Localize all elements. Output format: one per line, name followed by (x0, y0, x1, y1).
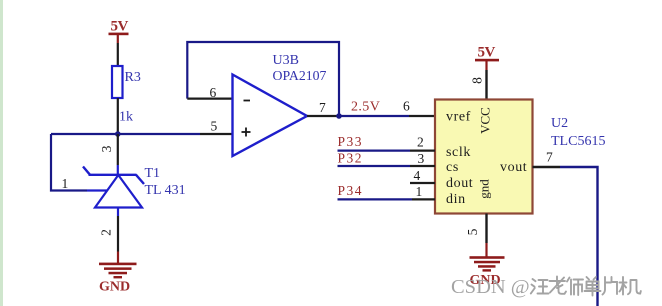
svg-text:6: 6 (210, 85, 217, 100)
svg-text:5V: 5V (111, 19, 129, 35)
wire output net 2.5V (339, 115, 435, 117)
power 5V (DAC) (475, 45, 499, 100)
svg-text:1: 1 (416, 184, 423, 199)
svg-text:6: 6 (403, 99, 410, 114)
svg-text:1: 1 (62, 176, 69, 191)
pin 7 stub (vout) and wire (533, 150, 598, 306)
svg-text:VCC: VCC (478, 107, 493, 134)
svg-text:2.5V: 2.5V (351, 100, 380, 115)
svg-text:TLC5615: TLC5615 (551, 134, 605, 149)
svg-text:4: 4 (414, 168, 421, 183)
op-amp U3B (233, 53, 327, 156)
wire anode to ground (117, 216, 119, 252)
svg-text:P32: P32 (338, 151, 364, 166)
wire IC gnd (485, 214, 487, 244)
svg-text:8: 8 (470, 77, 485, 84)
svg-text:5V: 5V (478, 45, 496, 61)
pin 3 label (TL431 cathode) (99, 145, 114, 152)
svg-text:P33: P33 (338, 134, 364, 149)
svg-text:CSDN @: CSDN @ (451, 276, 530, 298)
svg-text:R3: R3 (125, 70, 141, 85)
ground GND (left) (99, 252, 137, 295)
svg-text:gnd: gnd (477, 179, 492, 199)
svg-text:5: 5 (211, 119, 218, 134)
svg-text:U3B: U3B (273, 53, 299, 68)
net P32 wire (338, 151, 436, 167)
svg-text:OPA2107: OPA2107 (273, 68, 327, 83)
pin 4 stub (dout) (410, 168, 435, 183)
pin 7 output stub (307, 100, 340, 116)
svg-text:T1: T1 (145, 166, 161, 181)
net P34 wire (338, 183, 436, 199)
ground GND (DAC) (470, 243, 505, 288)
watermark (451, 276, 641, 298)
pin 5 stub (200, 119, 232, 135)
svg-text:cs: cs (446, 160, 459, 175)
svg-text:3: 3 (418, 151, 425, 166)
svg-text:7: 7 (546, 150, 553, 165)
svg-text:TL 431: TL 431 (145, 183, 186, 198)
svg-text:7: 7 (319, 100, 326, 115)
pin 8 label (VCC) (470, 77, 485, 84)
power 5V (left) (109, 19, 129, 67)
junction output (336, 113, 342, 119)
net label 2.5V (351, 100, 380, 115)
IC U2 TLC5615 (435, 100, 605, 214)
svg-text:1k: 1k (119, 110, 133, 125)
svg-text:P34: P34 (338, 183, 364, 198)
svg-text:GND: GND (99, 280, 130, 295)
svg-text:vref: vref (446, 110, 471, 125)
wire feedback loop (187, 42, 339, 116)
pin 6 label (vref) (403, 99, 410, 114)
svg-text:2: 2 (99, 229, 114, 236)
resistor R3 (112, 66, 141, 134)
svg-text:2: 2 (417, 135, 424, 150)
svg-text:U2: U2 (551, 116, 568, 131)
svg-text:sclk: sclk (446, 145, 471, 160)
pin 6 stub (187, 85, 231, 100)
pin 1 label (TL431 ref) (62, 176, 69, 191)
svg-text:din: din (446, 192, 466, 207)
junction (115, 131, 121, 137)
svg-text:vout: vout (500, 160, 527, 175)
wire node horizontal (51, 133, 200, 135)
svg-text:dout: dout (446, 176, 473, 191)
svg-text:5: 5 (465, 228, 480, 235)
pin 2 label (TL431 anode) (99, 229, 114, 236)
pin 5 label (gnd) (465, 228, 480, 235)
transistor T1 TL431 (83, 134, 186, 216)
wire left loop to TL431 ref (51, 134, 87, 191)
net P33 wire (338, 134, 436, 151)
svg-text:3: 3 (99, 145, 114, 152)
